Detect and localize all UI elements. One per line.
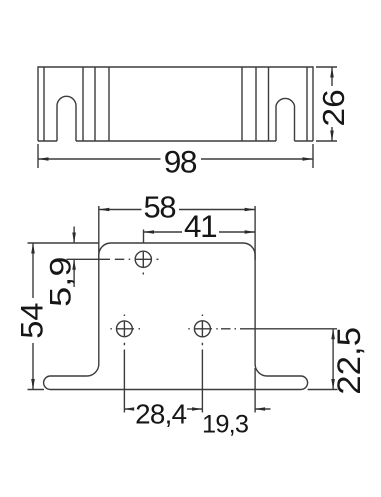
svg-text:22,5: 22,5	[332, 327, 367, 395]
svg-text:28,4: 28,4	[135, 399, 187, 430]
svg-text:58: 58	[144, 190, 177, 225]
svg-text:98: 98	[164, 144, 198, 180]
svg-text:54: 54	[14, 303, 49, 339]
svg-text:26: 26	[316, 89, 350, 126]
svg-text:41: 41	[184, 209, 218, 244]
svg-text:5,9: 5,9	[44, 257, 77, 307]
svg-text:19,3: 19,3	[202, 410, 249, 438]
